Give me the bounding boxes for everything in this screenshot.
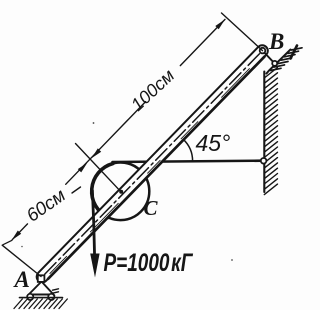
dim arrow at A end xyxy=(12,231,22,241)
dim arrow at top end xyxy=(215,19,225,29)
pin circle B xyxy=(260,48,266,54)
pulley at C xyxy=(92,163,150,221)
rope anchor dot on wall xyxy=(261,158,267,164)
svg-text:P=1000 кГ: P=1000 кГ xyxy=(104,248,194,276)
beam inner shading xyxy=(50,59,259,274)
speck xyxy=(231,259,233,261)
svg-text:C: C xyxy=(144,196,159,220)
wall top end bar xyxy=(291,46,298,59)
svg-text:A: A xyxy=(13,267,30,292)
dim arrow at split from 60 side xyxy=(78,163,88,173)
node C extension line xyxy=(76,144,121,192)
ground line at A xyxy=(20,297,63,299)
support triangle at A xyxy=(29,282,54,295)
svg-text:B: B xyxy=(268,29,284,54)
dimension line 100cm upper segment xyxy=(180,19,225,65)
speck xyxy=(21,246,23,248)
beam axis dash-dot xyxy=(45,54,260,275)
wall vertical edge xyxy=(263,72,265,193)
roller right xyxy=(48,294,54,300)
dimension line 100cm lower segment xyxy=(90,102,145,159)
dash after 60cm text xyxy=(72,187,81,193)
beam lower edge heavy line xyxy=(48,57,264,279)
dimension line 60cm lower segment xyxy=(12,224,27,240)
link B to wall pin xyxy=(263,51,275,64)
wall hatching xyxy=(264,68,277,79)
extension line at B xyxy=(222,13,263,51)
speck xyxy=(93,122,95,124)
force P arrow head xyxy=(90,254,99,278)
node C center dot xyxy=(119,190,123,194)
dim line overshoot at A xyxy=(3,240,12,245)
wall top edge near B xyxy=(267,50,291,74)
wire horizontal rope from pulley to wall anchor xyxy=(113,161,262,162)
wall pin circle xyxy=(272,61,277,66)
pulley rim heavy lower-left arc xyxy=(92,164,113,218)
ground hatching at A xyxy=(14,299,22,309)
beam AB xyxy=(37,45,268,282)
small mark right of triangle xyxy=(53,289,59,293)
roller left xyxy=(27,294,33,300)
wall top hatching xyxy=(271,68,282,70)
angle arc 45 xyxy=(183,139,192,161)
wire vertical rope from pulley to load xyxy=(92,191,94,258)
extension line at A xyxy=(2,245,41,276)
svg-text:45°: 45° xyxy=(196,130,231,156)
dimension line 60cm upper segment xyxy=(66,159,91,185)
pin square at A xyxy=(38,275,45,282)
dim arrow at split from 100 side xyxy=(92,148,102,158)
